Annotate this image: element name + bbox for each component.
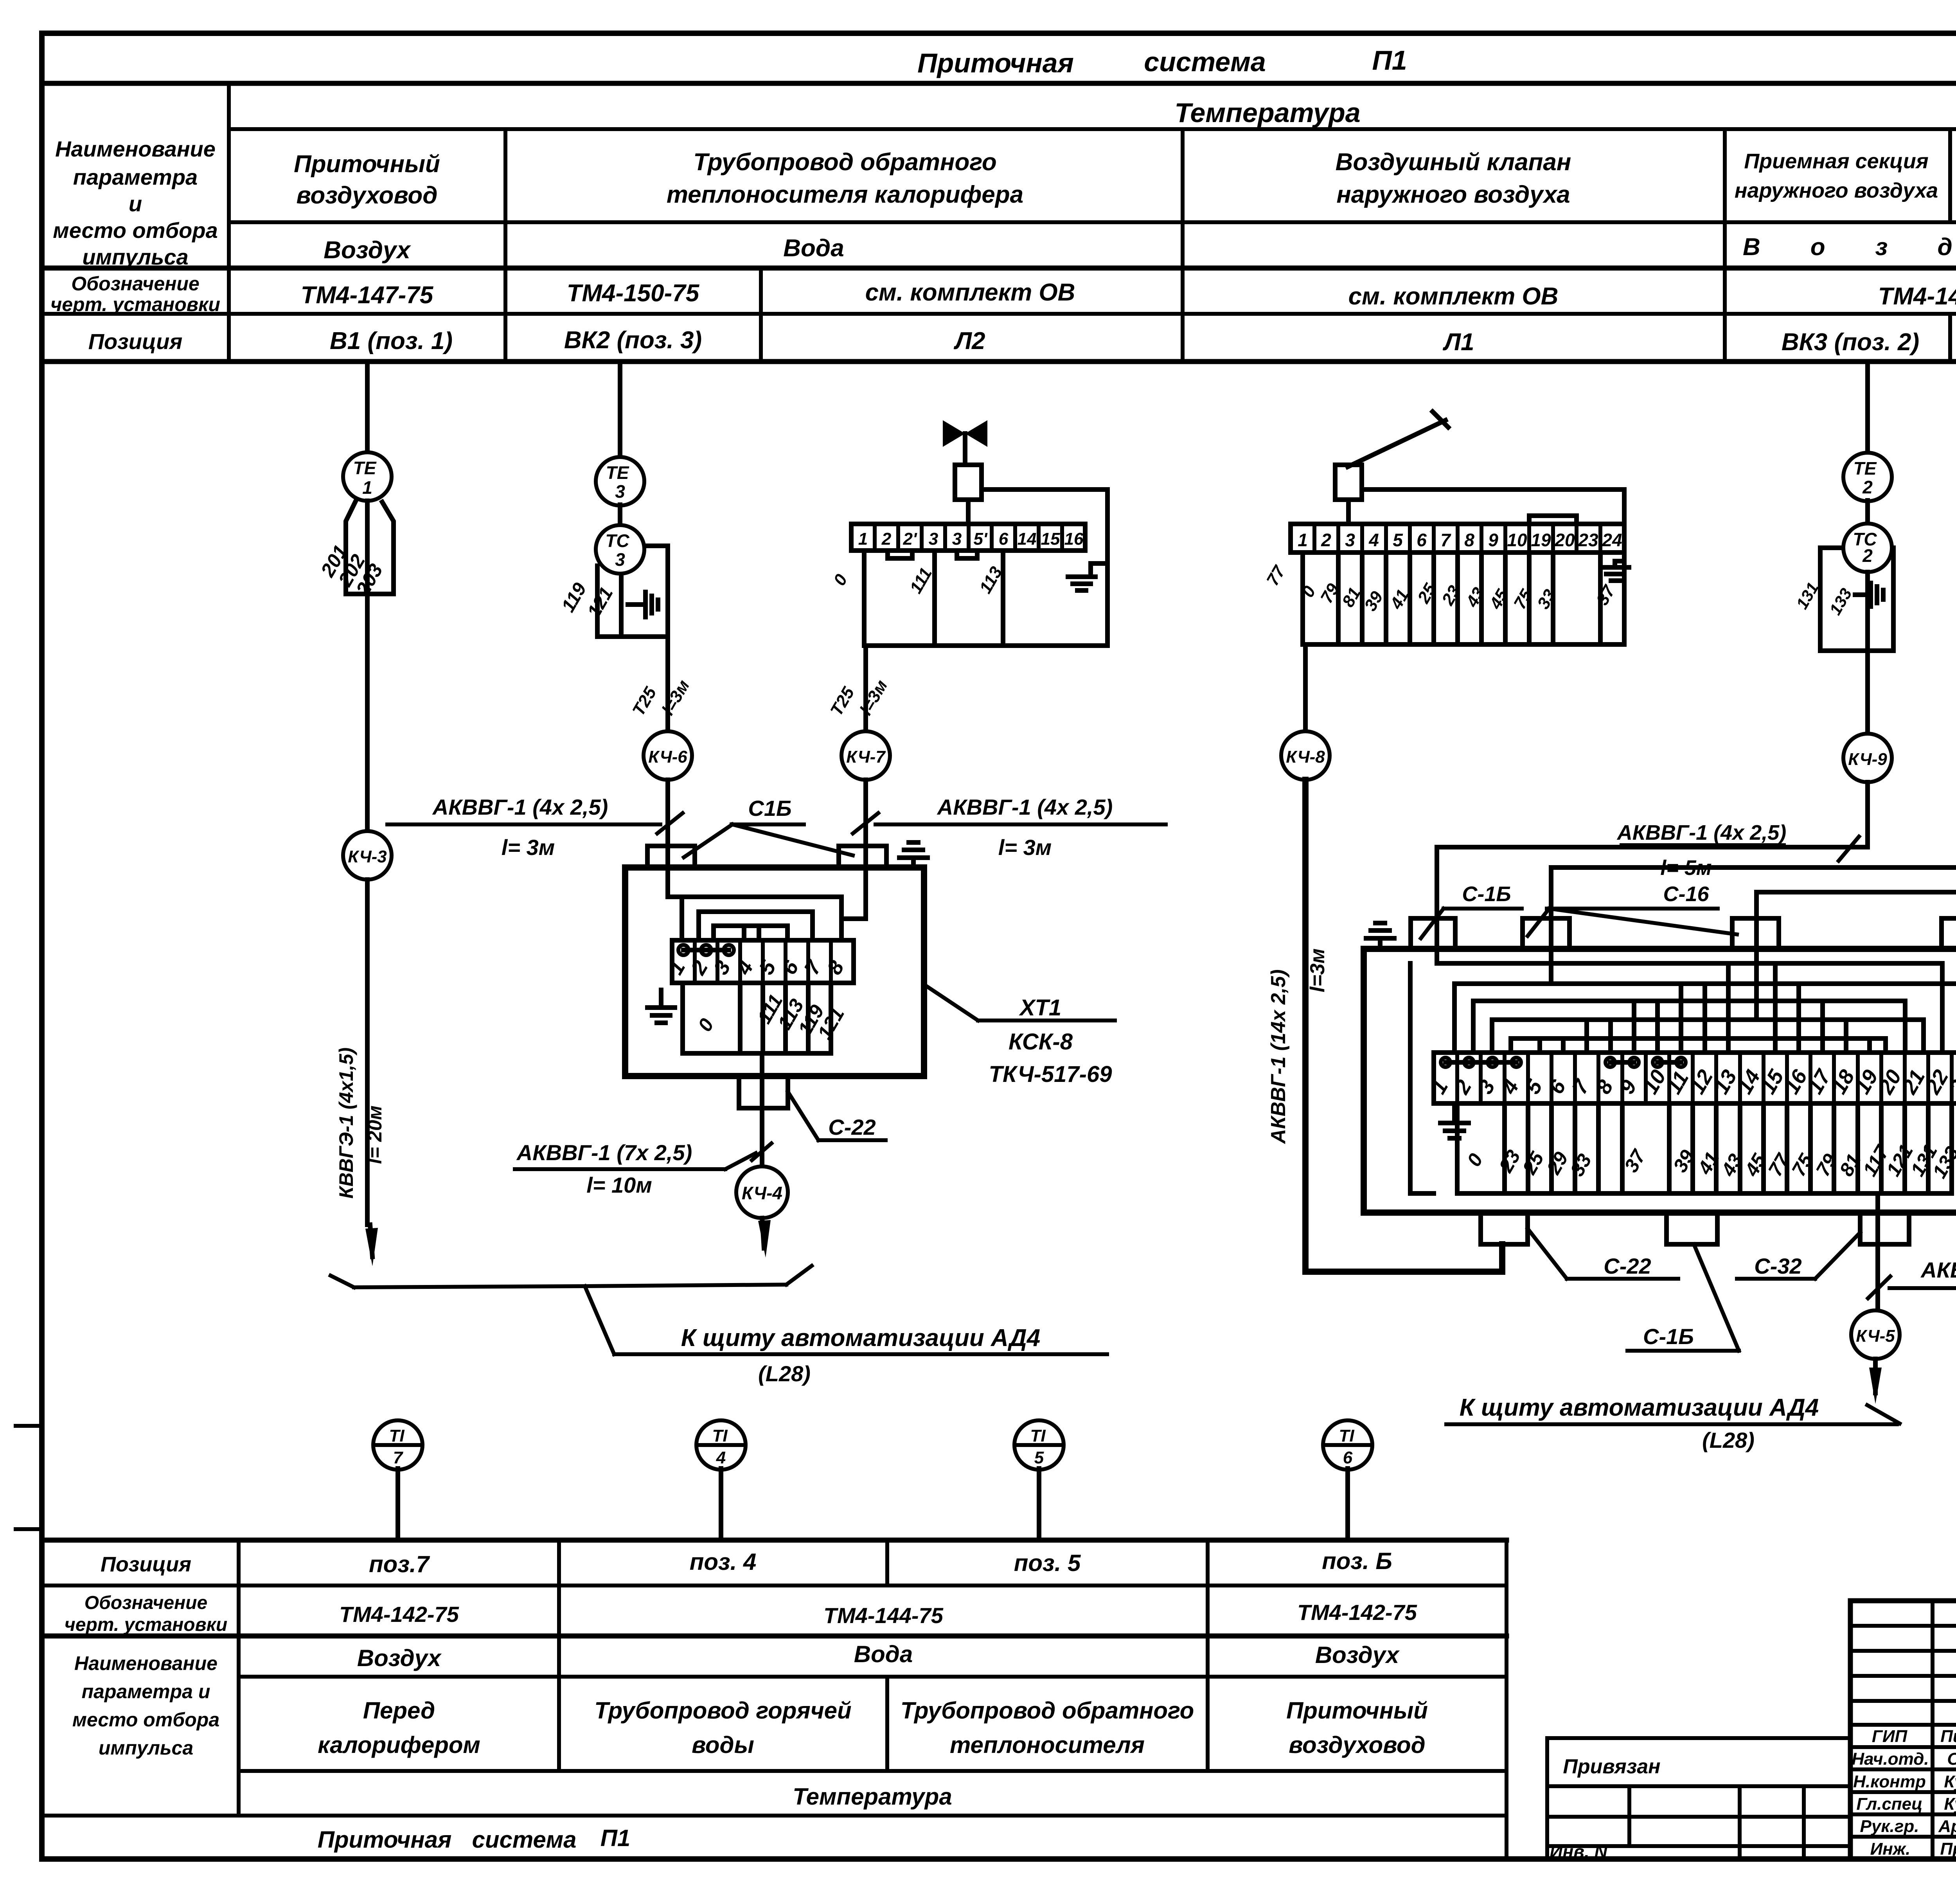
svg-text:l= 3м: l= 3м	[502, 835, 555, 860]
svg-text:параметра и: параметра и	[82, 1681, 210, 1702]
svg-text:Кузнецов: Кузнецов	[1944, 1794, 1956, 1814]
label C-16 stubs 2 and 3	[1528, 882, 1737, 936]
instrument circle TI-4	[696, 1420, 746, 1540]
svg-text:ТМ4-144-75: ТМ4-144-75	[823, 1603, 944, 1628]
svg-text:ТІ: ТІ	[389, 1426, 405, 1445]
svg-text:2: 2	[1321, 530, 1331, 550]
svg-text:Инв. N: Инв. N	[1550, 1841, 1607, 1862]
svg-text:импульса: импульса	[82, 245, 188, 269]
svg-text:20: 20	[1554, 530, 1575, 550]
air valve L2	[943, 420, 987, 465]
svg-text:КЧ-8: КЧ-8	[1286, 747, 1325, 767]
svg-text:КЧ-5: КЧ-5	[1856, 1326, 1895, 1346]
instrument circle KCH-3	[343, 831, 392, 880]
instrument circle TC-3 with junction box	[596, 505, 668, 637]
svg-text:С-1Б: С-1Б	[1643, 1324, 1694, 1349]
svg-text:см. комплект ОВ: см. комплект ОВ	[1348, 283, 1559, 310]
svg-text:Арнаутова: Арнаутова	[1938, 1817, 1956, 1836]
label XT1 KSK-8 TKCH-517-69	[926, 986, 1115, 1087]
svg-text:Рук.гр.: Рук.гр.	[1860, 1817, 1919, 1836]
terminal box XT2	[1364, 918, 1956, 1213]
svg-text:Приточный: Приточный	[1286, 1697, 1428, 1724]
svg-text:23: 23	[1578, 530, 1598, 550]
svg-text:ТМ4-150-75: ТМ4-150-75	[567, 280, 700, 307]
svg-text:Пивторак: Пивторак	[1940, 1727, 1956, 1746]
svg-text:место отбора: место отбора	[72, 1709, 219, 1731]
svg-text:2: 2	[881, 529, 892, 549]
svg-text:система: система	[472, 1827, 576, 1853]
svg-text:калорифером: калорифером	[318, 1732, 480, 1758]
label C-16 bottom	[1627, 1244, 1739, 1351]
ground at XT1 top right	[899, 842, 928, 867]
svg-text:КЧ-4: КЧ-4	[742, 1183, 782, 1203]
svg-text:3: 3	[615, 481, 625, 502]
svg-text:КЧ-9: КЧ-9	[1848, 750, 1887, 769]
svg-text:3: 3	[952, 529, 962, 549]
svg-text:Температура: Температура	[793, 1783, 952, 1810]
svg-text:АКВВГ-1 (4х 2,5): АКВВГ-1 (4х 2,5)	[937, 795, 1113, 819]
wire to KCH-9	[1865, 572, 1870, 734]
svg-text:Трубопровод обратного: Трубопровод обратного	[901, 1697, 1194, 1724]
svg-text:l= 20м: l= 20м	[364, 1105, 386, 1164]
bottom stubs of XT2	[1481, 1213, 1909, 1244]
svg-text:Наименование: Наименование	[55, 137, 216, 161]
svg-text:КВВГЭ-1 (4х1,5): КВВГЭ-1 (4х1,5)	[335, 1047, 357, 1199]
svg-text:4: 4	[1368, 530, 1379, 550]
svg-text:Воздух: Воздух	[324, 237, 411, 264]
terminal numbers L2	[858, 529, 1084, 549]
svg-text:Л1: Л1	[1442, 329, 1474, 356]
svg-text:Обозначение: Обозначение	[71, 273, 200, 295]
svg-text:Позиция: Позиция	[88, 329, 183, 354]
svg-text:6: 6	[1343, 1448, 1353, 1467]
svg-text:Воздушный клапан: Воздушный клапан	[1336, 149, 1571, 176]
svg-text:поз. 5: поз. 5	[1014, 1550, 1081, 1576]
svg-text:см. комплект ОВ: см. комплект ОВ	[865, 279, 1075, 306]
svg-text:КЧ-3: КЧ-3	[348, 847, 387, 866]
text to AD4 panel right	[1460, 1394, 1819, 1452]
stamp texts	[1852, 1623, 1956, 1862]
svg-text:7: 7	[1440, 530, 1451, 550]
svg-text:П1: П1	[1372, 45, 1407, 76]
svg-text:(L28): (L28)	[758, 1361, 811, 1386]
svg-text:черт. установки: черт. установки	[65, 1614, 227, 1635]
ground in BK3 box	[1855, 583, 1883, 606]
svg-text:2': 2'	[903, 529, 917, 549]
svg-text:АКВВГ-1 (14х 2,5): АКВВГ-1 (14х 2,5)	[1267, 969, 1290, 1144]
svg-text:АКВВГ-1 (4х 2,5): АКВВГ-1 (4х 2,5)	[1616, 821, 1786, 844]
svg-text:поз. Б: поз. Б	[1322, 1548, 1392, 1574]
svg-text:ТЕ: ТЕ	[606, 463, 629, 483]
svg-text:3: 3	[929, 529, 938, 549]
wire column BK2 sensor TE-3	[618, 364, 622, 457]
cable AKVVG-1 19x2.5 l=15m marker	[1868, 1258, 1956, 1323]
svg-text:ТЕ: ТЕ	[1854, 458, 1877, 479]
XT2 lower slots	[1457, 1103, 1952, 1193]
core numbers L2	[830, 563, 1006, 597]
svg-text:С-22: С-22	[828, 1115, 876, 1139]
cable AKVVG-1 4x2.5 l=3m marker right	[853, 795, 1166, 860]
svg-text:10: 10	[1507, 530, 1527, 550]
svg-text:19: 19	[1531, 530, 1551, 550]
svg-text:Гл.спец: Гл.спец	[1856, 1794, 1922, 1814]
svg-text:параметра: параметра	[73, 165, 198, 189]
svg-text:Проимкина: Проимкина	[1940, 1839, 1956, 1859]
wire XT1 to KCH-4	[760, 1053, 764, 1166]
svg-text:ТМ4-142-75: ТМ4-142-75	[339, 1602, 459, 1627]
instrument circle TE-1	[343, 452, 392, 501]
svg-text:2: 2	[1862, 545, 1873, 566]
svg-text:Воздух: Воздух	[1315, 1642, 1400, 1668]
terminal numbers L1	[1298, 530, 1622, 550]
bottom table texts	[65, 1548, 1428, 1853]
svg-text:ТЕ: ТЕ	[353, 458, 377, 478]
svg-text:черт. установки: черт. установки	[50, 293, 220, 315]
wire KCH-10 to XT2	[1551, 782, 1956, 984]
wire collector L1 to KCH-8	[1303, 644, 1308, 731]
svg-text:Перед: Перед	[363, 1697, 435, 1724]
core numbers 119 121	[558, 579, 617, 621]
svg-text:Трубопровод обратного: Трубопровод обратного	[693, 149, 997, 176]
svg-text:Привязан: Привязан	[1563, 1755, 1660, 1778]
svg-text:l= 10м: l= 10м	[586, 1173, 652, 1197]
svg-text:ХТ1: ХТ1	[1019, 995, 1061, 1020]
cable AKVVG-1 14x2.5 l=3m vertical	[1267, 780, 1502, 1272]
svg-text:поз. 4: поз. 4	[690, 1549, 757, 1575]
terminal box XT1	[625, 846, 924, 1076]
svg-text:система: система	[1144, 47, 1266, 77]
instrument circle TE-3	[596, 457, 644, 506]
svg-text:ТС: ТС	[605, 531, 629, 551]
instrument circle KCH-9	[1843, 734, 1892, 782]
svg-text:С1Б: С1Б	[748, 796, 791, 821]
svg-text:Н.контр: Н.контр	[1853, 1772, 1926, 1791]
valve actuator box L2	[955, 465, 1107, 646]
svg-text:место отбора: место отбора	[53, 218, 218, 243]
thermowell pocket of TE-1	[346, 501, 394, 831]
core numbers L1	[1263, 562, 1619, 614]
svg-text:ВК3 (поз. 2): ВК3 (поз. 2)	[1782, 329, 1919, 356]
jumpers on XT2 terminals	[1441, 1058, 1686, 1067]
svg-text:ТКЧ-517-69: ТКЧ-517-69	[989, 1062, 1112, 1087]
svg-text:импульса: импульса	[99, 1737, 193, 1759]
terminal strip XT2	[1434, 1053, 1956, 1103]
svg-text:Наименование: Наименование	[74, 1652, 218, 1674]
svg-text:7: 7	[393, 1448, 404, 1467]
cable AKVVG-1 7x2.5 l=10m marker	[515, 1140, 771, 1197]
svg-text:24: 24	[1602, 530, 1622, 550]
svg-text:8: 8	[1464, 530, 1474, 550]
svg-text:К щиту автоматизации АД: К щиту автоматизации АД4	[681, 1325, 1041, 1352]
XT2 core numbers	[1463, 1141, 1956, 1182]
wire KCH-11 to XT2	[1756, 872, 1956, 1020]
title block stamp	[1850, 1601, 1956, 1859]
svg-text:Приточная: Приточная	[318, 1827, 452, 1853]
air damper drive L1	[1335, 412, 1624, 644]
svg-text:АКВВГ-1 (19х 2,5): АКВВГ-1 (19х 2,5)	[1920, 1258, 1956, 1282]
XT1 terminal numbers	[663, 956, 849, 979]
svg-text:КЧ-6: КЧ-6	[648, 747, 687, 767]
bottom table grid	[42, 1540, 1507, 1859]
svg-text:15: 15	[1041, 529, 1060, 549]
svg-text:наружного воздуха: наружного воздуха	[1735, 179, 1938, 202]
wire column BK3 sensor TE-2	[1865, 364, 1870, 453]
svg-text:АКВВГ-1 (4х 2,5): АКВВГ-1 (4х 2,5)	[432, 795, 608, 819]
svg-text:Л2: Л2	[953, 328, 985, 355]
terminal strip L2	[851, 524, 1085, 551]
svg-text:поз.7: поз.7	[369, 1551, 430, 1577]
svg-text:Вода: Вода	[854, 1641, 913, 1667]
ground at XT2 top left	[1366, 923, 1394, 949]
svg-text:теплоносителя калорифера: теплоносителя калорифера	[667, 181, 1023, 208]
arrow from KCH-4	[758, 1218, 771, 1258]
wire KCH-9 to XT2	[1437, 782, 1868, 963]
svg-text:Позиция: Позиция	[101, 1553, 191, 1576]
svg-text:К щиту автоматизации АД: К щиту автоматизации АД4	[1460, 1394, 1819, 1421]
svg-text:ТІ: ТІ	[1030, 1426, 1046, 1445]
instrument circle KCH-8	[1281, 731, 1330, 780]
wires below strip L1 to collector	[1303, 552, 1624, 644]
wire column B1 sensor TE-1	[365, 364, 370, 452]
svg-text:Огурцов: Огурцов	[1947, 1749, 1956, 1769]
terminal strip XT1	[672, 940, 854, 983]
svg-text:5': 5'	[974, 529, 988, 549]
svg-text:ТІ: ТІ	[712, 1426, 728, 1445]
wire collector L2 to KCH-7	[827, 646, 891, 731]
svg-text:6: 6	[999, 529, 1009, 549]
internal wiring XT1	[668, 897, 866, 940]
svg-text:ТІ: ТІ	[1339, 1426, 1354, 1445]
svg-text:КЧ-7: КЧ-7	[846, 747, 886, 767]
wire KCH-6 to XT1	[665, 780, 670, 897]
instrument circle KCH-5	[1851, 1310, 1900, 1359]
svg-text:4: 4	[716, 1448, 726, 1467]
instrument circle TC-2 with box (BK3)	[1820, 500, 1893, 651]
svg-text:Обозначение: Обозначение	[84, 1593, 207, 1613]
arrow from KCH-5	[1869, 1359, 1882, 1404]
svg-text:Приемная секция: Приемная секция	[1744, 149, 1928, 173]
svg-text:ТМ4-142-75: ТМ4-142-75	[1297, 1600, 1417, 1625]
XT2 terminal numbers	[1426, 1065, 1956, 1098]
svg-text:С-32: С-32	[1754, 1254, 1801, 1278]
instrument circle TE-2 (BK3)	[1843, 453, 1892, 501]
cable KVVGE-1 4x1.5 l=20m wire down with arrow	[335, 880, 386, 1266]
svg-text:3: 3	[615, 549, 625, 570]
svg-text:Инж.: Инж.	[1870, 1839, 1911, 1859]
svg-text:16: 16	[1064, 529, 1084, 549]
svg-text:воздуховод: воздуховод	[296, 182, 437, 209]
pointer bracket to AD4 right	[1446, 1405, 1900, 1424]
label C-32 bottom	[1737, 1233, 1860, 1279]
svg-text:Воздух: Воздух	[357, 1645, 442, 1671]
svg-text:Температура: Температура	[1174, 97, 1360, 128]
svg-text:В1 (поз. 1): В1 (поз. 1)	[330, 328, 453, 355]
svg-text:3: 3	[1345, 530, 1355, 550]
top table texts	[50, 45, 1956, 356]
svg-text:Приточная: Приточная	[917, 48, 1074, 78]
wire KCH-7 to XT1	[863, 780, 868, 919]
svg-text:9: 9	[1488, 530, 1498, 550]
wires below strip L2 to collector	[864, 551, 1107, 646]
svg-text:1: 1	[1298, 530, 1308, 550]
svg-text:l= 3м: l= 3м	[998, 835, 1052, 860]
instrument circle TI-7	[373, 1420, 422, 1540]
svg-text:КСК-8: КСК-8	[1009, 1029, 1073, 1055]
svg-text:(L28): (L28)	[1702, 1428, 1755, 1452]
svg-text:С-1Б: С-1Б	[1462, 882, 1511, 906]
coupling C-22 under XT1	[739, 1076, 886, 1140]
text to AD4 panel left	[681, 1325, 1041, 1386]
svg-text:Вода: Вода	[783, 235, 844, 262]
svg-text:С-16: С-16	[1663, 882, 1709, 906]
svg-text:ТМ4-147-75: ТМ4-147-75	[301, 282, 434, 309]
left margin fold marks	[16, 1426, 42, 1529]
svg-text:ВК2 (поз. 3): ВК2 (поз. 3)	[564, 327, 702, 354]
pointer bracket to AD4 left	[331, 1266, 1107, 1354]
svg-text:ТМ4-147-75: ТМ4-147-75	[1878, 283, 1956, 310]
svg-text:Кузнецов: Кузнецов	[1944, 1772, 1956, 1791]
ground in TC-3 box	[628, 592, 658, 617]
svg-text:2: 2	[1862, 477, 1873, 497]
top table grid	[42, 83, 1956, 362]
svg-text:Нач.отд.: Нач.отд.	[1852, 1749, 1929, 1769]
instrument circle KCH-7	[841, 731, 890, 780]
XT1 lower slots with core numbers	[683, 983, 831, 1053]
ground inside XT2	[1440, 1107, 1469, 1138]
ground of L1 circuit	[1602, 561, 1629, 581]
label C-22 bottom	[1528, 1229, 1678, 1279]
instrument circle TI-5	[1014, 1420, 1064, 1540]
terminal strip L1	[1291, 516, 1624, 552]
instrument circle TI-6	[1323, 1420, 1372, 1540]
ground of L2 circuit	[1068, 563, 1107, 590]
wire TC-3 box to KCH-6	[629, 637, 693, 731]
Привязан block	[1547, 1738, 1850, 1862]
svg-text:и: и	[129, 191, 142, 216]
ground inside XT1	[647, 990, 675, 1023]
cable AKVVG-1 4x2.5 l=3m marker left	[387, 795, 683, 860]
svg-text:теплоносителя: теплоносителя	[950, 1732, 1145, 1758]
svg-text:Трубопровод горячей: Трубопровод горячей	[594, 1697, 851, 1724]
svg-text:воды: воды	[692, 1732, 754, 1758]
svg-text:ГИП: ГИП	[1872, 1727, 1908, 1746]
jumper on XT1 terminals 1-3	[678, 945, 734, 955]
wire XT2 to KCH-5	[1875, 1193, 1880, 1310]
svg-text:5: 5	[1034, 1448, 1044, 1467]
svg-text:воздуховод: воздуховод	[1289, 1732, 1425, 1758]
svg-text:П1: П1	[600, 1825, 631, 1851]
instrument circle KCH-4	[736, 1166, 788, 1218]
svg-text:14: 14	[1018, 529, 1037, 549]
svg-text:6: 6	[1417, 530, 1427, 550]
instrument circle KCH-6	[644, 731, 692, 780]
svg-text:Приточный: Приточный	[294, 151, 440, 178]
svg-text:l=3м: l=3м	[1306, 948, 1329, 992]
svg-text:1: 1	[858, 529, 868, 549]
svg-text:1: 1	[362, 477, 372, 498]
svg-text:Воздух: Воздух	[1743, 234, 1956, 261]
wire core numbers 201 202 203	[316, 541, 387, 599]
label C-16 stub1	[1421, 882, 1522, 938]
svg-text:С-22: С-22	[1604, 1254, 1651, 1278]
svg-text:5: 5	[1393, 530, 1403, 550]
internal bus wiring XT2	[1410, 963, 1956, 1193]
label C16 with leaders at XT1	[684, 796, 853, 857]
svg-text:АКВВГ-1 (7х 2,5): АКВВГ-1 (7х 2,5)	[516, 1140, 692, 1165]
cable AKVVG-1 4x2.5 l=5m marker middle	[1616, 821, 1859, 880]
svg-text:наружного воздуха: наружного воздуха	[1336, 181, 1570, 208]
core numbers 131 133	[1792, 579, 1855, 618]
